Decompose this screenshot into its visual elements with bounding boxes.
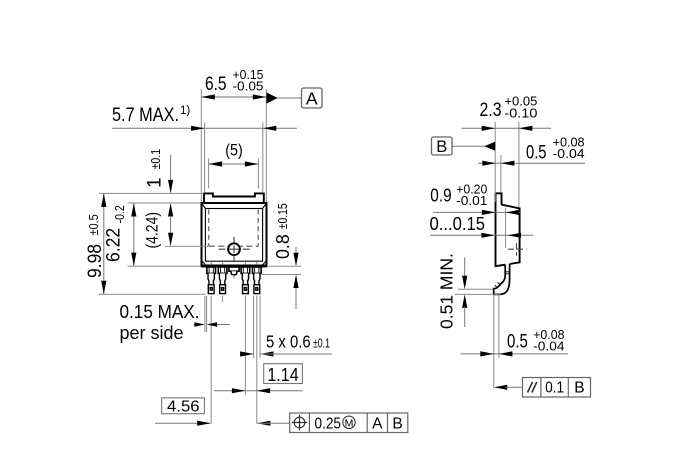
parallelism symbol [528, 382, 533, 393]
dimension 0.15 MAX arrows [194, 324, 200, 326]
svg-text:5 x 0.6: 5 x 0.6 [266, 332, 311, 352]
extension line body top left [128, 202, 201, 204]
side view lead [494, 264, 510, 294]
lead 5 [253, 267, 262, 273]
extension line body left (6.5) [200, 89, 202, 202]
svg-text:B: B [574, 380, 584, 397]
dimension 5 x 0.6 line [240, 353, 254, 355]
lead 2 [218, 267, 227, 273]
extension line tab ear top [99, 192, 204, 194]
extension line seating plane [455, 293, 501, 295]
extension line side pad plane [505, 208, 507, 249]
extension line lead1 centre [210, 296, 212, 424]
extension line pad right (5) [257, 159, 259, 189]
extension line lead1 left edge [206, 296, 208, 332]
M circle modifier [343, 416, 355, 428]
svg-text:0.25: 0.25 [315, 415, 342, 432]
extension line tab right (5.7) [262, 123, 264, 193]
extension line lead4 centre [244, 296, 246, 396]
hole centerlines (dashed) [219, 248, 250, 250]
dimension 6.5 +0.15/-0.05 line [201, 96, 266, 98]
mounting tab front view [204, 193, 264, 203]
extension line pad left (5) [208, 159, 210, 189]
dimension 0.51 MIN line [464, 258, 466, 278]
extension line foot tip vertical [493, 295, 495, 388]
extension line tab left (5.7) [204, 123, 206, 193]
extension lines 0.8 [269, 265, 302, 267]
svg-text:(4.24): (4.24) [143, 212, 162, 249]
parallelism tolerance frame [523, 378, 591, 398]
extension line body right (6.5) [265, 89, 267, 202]
extension line lead2 centre [222, 296, 224, 303]
dimension 0.8 line [295, 247, 297, 254]
svg-text:0.51 MIN.: 0.51 MIN. [437, 253, 457, 329]
datum B box [432, 137, 453, 155]
extension line foot top [458, 288, 493, 290]
datum B leader [452, 145, 485, 147]
extension line side body left [494, 122, 496, 202]
extension line lead5 centre [256, 296, 258, 424]
dimension 5.7 MAX line [112, 127, 297, 129]
svg-text:A: A [306, 89, 318, 109]
extension line body bottom left [128, 265, 201, 267]
dimension 1 +-0.1 line and arrows [170, 155, 172, 181]
svg-text:A: A [372, 415, 383, 432]
datum A box [302, 88, 323, 108]
lead bend tick lines [505, 271, 509, 273]
extension line side tab right [500, 155, 502, 193]
dimension (5) line [209, 163, 259, 165]
svg-text:per side: per side [120, 323, 184, 343]
svg-text:±0.1: ±0.1 [313, 337, 330, 351]
dimension 9.98 +-0.5 line [103, 193, 105, 294]
extension line lead5 left edge [253, 296, 255, 359]
side view body fill [496, 193, 520, 266]
dimension 0...0.15 line [430, 234, 533, 236]
svg-text:0.15 MAX.: 0.15 MAX. [120, 302, 200, 322]
dimension 0.9 line [433, 211, 520, 213]
dimension 2.3 line [462, 127, 552, 129]
lead 3 stub [229, 267, 239, 271]
extension line pad bottom left [165, 245, 208, 247]
svg-text:1.14: 1.14 [267, 365, 298, 385]
dimension 4.56 box [162, 398, 205, 414]
svg-text:6.5: 6.5 [205, 74, 227, 95]
extension line foot back vertical [498, 295, 500, 358]
svg-text:M: M [345, 417, 354, 429]
hidden die pad outline (dashed) [208, 210, 210, 247]
svg-text:-0.01: -0.01 [456, 194, 487, 208]
package body front view [202, 203, 267, 266]
svg-text:-0.04: -0.04 [533, 339, 564, 353]
svg-text:0.9: 0.9 [430, 184, 451, 205]
extension line side body right [518, 122, 520, 208]
svg-text:4.56: 4.56 [167, 398, 200, 415]
svg-text:B: B [436, 138, 447, 156]
datum A triangle and leader [267, 92, 278, 103]
extension line flash left [204, 296, 206, 332]
position tolerance frame [290, 413, 408, 433]
mounting hole circle [228, 243, 240, 255]
dimension 6.22 -0.2 line [133, 203, 135, 266]
svg-text:-0.05: -0.05 [233, 79, 264, 93]
svg-text:(5): (5) [225, 141, 243, 160]
lead centre ticks at body bottom [210, 260, 212, 265]
dimension (4.24) line and arrow [170, 216, 172, 235]
body inner chamfer outline [205, 209, 262, 262]
side view body outline [496, 193, 506, 266]
svg-text:-0.10: -0.10 [504, 107, 537, 121]
svg-text:0.1: 0.1 [545, 380, 564, 397]
position symbol [294, 417, 305, 428]
svg-text:0...0.15: 0...0.15 [430, 213, 486, 234]
svg-text:2.3: 2.3 [480, 100, 502, 121]
svg-text:1): 1) [180, 105, 190, 117]
lead 4 [241, 267, 250, 273]
dimension 1.14 line [214, 390, 303, 392]
svg-text:0.5: 0.5 [526, 142, 547, 163]
lead 1 [207, 267, 216, 273]
dimension 0.5 tab line [478, 162, 585, 164]
dimension 1.14 box [264, 364, 303, 384]
svg-text:0.5: 0.5 [507, 331, 528, 352]
extension line lead tips left [99, 293, 206, 295]
parallelism frame leader [494, 385, 508, 390]
side view hidden hole lines (dashed) [508, 248, 527, 250]
svg-text:-0.04: -0.04 [553, 147, 585, 161]
extension line lead5 right edge [259, 296, 261, 359]
svg-text:5.7 MAX.: 5.7 MAX. [112, 105, 179, 126]
dimension 4.56 line [155, 422, 211, 424]
dimension 0.5 foot line [461, 353, 569, 355]
svg-text:B: B [392, 415, 402, 432]
